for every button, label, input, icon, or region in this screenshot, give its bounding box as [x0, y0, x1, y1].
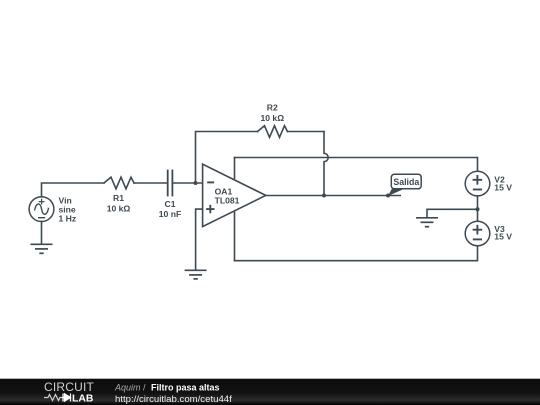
wire feedback up from node A — [196, 132, 258, 184]
wire R1 to C1 — [134, 182, 167, 184]
svg-text:10 kΩ: 10 kΩ — [260, 113, 284, 123]
CircuitLab logo — [44, 380, 95, 404]
node C junction dot (Salida tap) — [386, 194, 390, 198]
capacitor C1 plate left — [167, 171, 169, 196]
svg-text:15 V: 15 V — [494, 183, 512, 193]
svg-text:10 nF: 10 nF — [159, 209, 181, 219]
wire midpoint to ground tap — [427, 209, 478, 217]
svg-text:LAB: LAB — [72, 394, 94, 405]
capacitor C1 plate right — [171, 171, 173, 196]
wire V- stub of op-amp — [234, 211, 236, 261]
wire op-amp output to Salida — [266, 195, 401, 197]
wire V+ rail to V2 — [235, 158, 478, 172]
node A junction dot (inverting input) — [194, 181, 198, 185]
Salida net flag — [388, 174, 421, 196]
op-amp OA1 triangle — [203, 164, 266, 226]
svg-text:CIRCUIT: CIRCUIT — [44, 380, 95, 394]
svg-text:R2: R2 — [267, 102, 278, 112]
svg-text:10 kΩ: 10 kΩ — [107, 203, 131, 213]
label Vin sine 1 Hz — [59, 195, 77, 223]
node D junction dot (V2 V3 midpoint) — [476, 207, 480, 211]
label R1 10 kΩ — [107, 193, 131, 214]
footer title text — [114, 383, 232, 405]
node B junction dot (feedback-output) — [322, 194, 326, 198]
label V2 15 V — [494, 175, 512, 193]
svg-text:http://circuitlab.com/cetu44f: http://circuitlab.com/cetu44f — [115, 394, 232, 405]
wire C1 to op-amp inverting input — [173, 182, 202, 184]
ground under op-amp non-inverting input — [185, 270, 207, 279]
label OA1 TL081 — [215, 186, 240, 205]
label R2 10 kΩ — [260, 102, 284, 123]
svg-text:Salida: Salida — [393, 177, 419, 187]
resistor R2 — [258, 126, 288, 138]
wire R2 to feedback drop — [288, 131, 325, 133]
ground at V2/V3 midpoint — [416, 218, 438, 227]
footer bar — [0, 379, 540, 405]
resistor R1 — [104, 177, 134, 189]
label V3 15 V — [494, 224, 512, 242]
wire op-amp non-inverting input — [196, 209, 203, 270]
voltage source V2 — [465, 171, 490, 196]
svg-text:TL081: TL081 — [215, 196, 240, 206]
ground under Vin — [31, 244, 53, 253]
wire V- rail to V3 — [235, 246, 478, 261]
svg-text:Aquim / Filtro pasa altas: Aquim / Filtro pasa altas — [114, 383, 220, 393]
svg-text:1 Hz: 1 Hz — [59, 214, 77, 224]
wire feedback drop with hop over V+ rail — [324, 132, 328, 196]
svg-text:15 V: 15 V — [494, 232, 512, 242]
wire main input: Vin top to R1 — [42, 183, 105, 197]
wire Vin bottom to ground — [41, 222, 43, 245]
voltage source Vin — [29, 197, 54, 222]
wire V+ stub of op-amp — [234, 158, 236, 179]
wire V2 to V3 — [477, 196, 479, 221]
svg-text:C1: C1 — [165, 199, 176, 209]
voltage source V3 — [465, 221, 490, 246]
svg-text:R1: R1 — [113, 193, 124, 203]
label C1 10 nF — [159, 199, 181, 219]
